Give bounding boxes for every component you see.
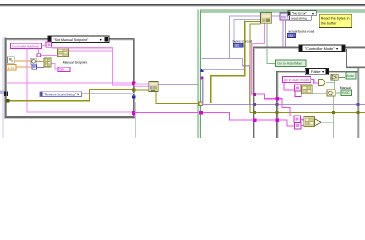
tunnel: green dot on case border	[266, 46, 269, 49]
multiply icon (round)	[31, 58, 36, 64]
wire: olive from subVI down and right	[155, 92, 200, 104]
svg-text:"Set Manual Setpoint": "Set Manual Setpoint"	[53, 38, 89, 42]
wire: pink inner-left vertical + bottom run	[27, 48, 134, 112]
svg-text:"Controller Mode": "Controller Mode"	[305, 47, 335, 51]
wire: green equality to BSC	[335, 93, 341, 94]
svg-text:I32: I32	[235, 44, 240, 48]
terminal I32 blue (bytes to read)	[233, 43, 243, 47]
terminal stub left of border	[0, 91, 4, 95]
nested structure bottom-right: bottom border of top-right box	[346, 49, 365, 69]
wire: olive error wire 2 down to bottom run	[249, 23, 365, 113]
wire: violet vertical from event border tunnel down	[202, 79, 203, 105]
case selector label "Set Manual Setpoint"	[48, 36, 109, 42]
svg-text:False: False	[311, 69, 321, 74]
case selector label "Controller Mode"	[299, 45, 345, 52]
svg-text:the buffer: the buffer	[321, 21, 337, 25]
wire: magenta label down to small box	[38, 49, 39, 54]
wire: olive error net from VISA icon down-left	[210, 21, 260, 103]
svg-text:go to auto mode: go to auto mode	[284, 78, 309, 82]
junction: magenta dot on event border lower	[199, 111, 203, 114]
bundle node (false case)	[302, 85, 313, 94]
svg-text:BSC: BSC	[342, 91, 350, 95]
numeric constant (orange DBL)	[7, 64, 16, 70]
wire: olive from tunnel to subVI	[134, 89, 149, 90]
wire: orange icon to round icon	[14, 60, 31, 61]
wire: magenta connectors in bottom cluster	[300, 119, 304, 126]
label "Controller Address"	[11, 43, 42, 48]
comparison triangle icon (bottom case)	[315, 119, 321, 126]
wire: magenta label to selector icon	[42, 45, 47, 46]
wire: pale line bundle to equality	[312, 93, 327, 94]
bundle node (bottom case)	[304, 117, 315, 127]
wire: pink format node to terminal	[51, 63, 58, 69]
nested case right area: vertical border	[357, 68, 359, 138]
tunnel dots on Controller Mode border	[253, 93, 256, 96]
wire: green boolean from icon down to local variable	[266, 23, 275, 64]
junction: olive dot at pale vertical	[332, 111, 335, 114]
boolean local "Manual" (green)	[341, 90, 351, 96]
local variable "Go to Auto/Man"	[276, 60, 307, 67]
wire: violet long horizontal to right edge	[202, 104, 365, 105]
svg-text:Manual Setpoint: Manual Setpoint	[63, 61, 88, 65]
svg-text:▼: ▼	[99, 38, 102, 42]
boolean constant "Auto"	[346, 72, 356, 79]
outer while loop bottom border	[5, 116, 136, 119]
event selector label "No Error"	[288, 11, 316, 16]
wire: pale lavender from Retrieve label to border	[81, 93, 134, 94]
terminal cluster magenta boxes (false case)	[294, 85, 301, 97]
svg-text:Controller Address: Controller Address	[12, 44, 39, 48]
wire: light pink band from border to subVI	[134, 83, 149, 87]
equality icon	[327, 90, 335, 96]
svg-text:DBL: DBL	[59, 68, 65, 72]
case structure "Controller Mode": top + left borders	[253, 47, 365, 138]
wire: pink bundle output to right tunnel (top route)	[7, 47, 134, 85]
wire: pale blue integer net (bytes to read)	[202, 19, 260, 70]
wire: pale line from triangle right	[321, 122, 333, 123]
svg-text:Go to Auto/Man: Go to Auto/Man	[277, 62, 302, 66]
wire: orange from DBL to converter	[16, 67, 32, 68]
tunnel dots on right vertical border	[356, 103, 359, 106]
bundle node	[58, 48, 69, 56]
wire: pink from bytes area down along case border	[251, 24, 291, 117]
wire: magenta stub from selector label down	[48, 43, 49, 45]
wire: magenta from label to OR gate	[311, 79, 319, 84]
wire: pink bundle output	[69, 51, 114, 52]
tunnel: blue on right border of left case	[132, 95, 135, 98]
comment note (yellow)	[319, 14, 351, 27]
OR gate icon	[319, 80, 325, 86]
case structure "False": top + left borders	[276, 71, 358, 138]
blue integer constant	[32, 65, 37, 69]
subVI icon	[149, 81, 158, 91]
wire: magenta label down to cluster	[284, 82, 295, 90]
svg-text:Auto: Auto	[346, 74, 354, 78]
svg-text:Manual: Manual	[340, 86, 351, 90]
tunnel: olive on right border of left case	[132, 88, 135, 91]
select node icon	[331, 74, 338, 80]
wire: green select to Auto	[338, 77, 345, 78]
wire: pink long upper run to right border	[7, 82, 134, 83]
format node (tan with cells)	[44, 58, 51, 67]
svg-text:▼: ▼	[321, 70, 324, 74]
terminal cluster magenta boxes (bottom case)	[294, 116, 301, 129]
wire: pale green vertical from gate down	[333, 97, 334, 139]
string case selector icon (magenta)	[46, 42, 52, 47]
svg-text:"No Error": "No Error"	[292, 12, 308, 16]
wire: long magenta lower run to the right	[134, 112, 294, 126]
wire: khaki round icon to format node	[36, 61, 44, 62]
wire: blue converter to format node	[37, 67, 45, 68]
tunnel: dark magenta dot on event border	[200, 77, 203, 80]
wire: violet VISA net top	[201, 15, 260, 105]
case selector label "Retrieve Scans/Setup"	[40, 92, 81, 97]
junction: magenta on bottom wire	[132, 111, 136, 115]
svg-text:1.23: 1.23	[8, 66, 15, 70]
svg-text:▼: ▼	[77, 92, 80, 96]
VISA read icon (khaki)	[260, 13, 271, 23]
svg-text:I32: I32	[288, 34, 293, 38]
label "read string"	[290, 16, 311, 21]
svg-text:"Retrieve Scans/Setup": "Retrieve Scans/Setup"	[44, 92, 76, 96]
junction dot on olive at left border	[6, 99, 9, 102]
small magenta constant box	[37, 54, 40, 57]
case selector label "False"	[305, 68, 328, 74]
wire: violet from VISA icon to PKT	[272, 16, 280, 17]
event structure top border (green)	[198, 10, 365, 13]
tunnel dots on False case border	[275, 97, 278, 100]
string constant PKT (purple)	[280, 13, 290, 20]
tunnel: magenta on right border of left case	[132, 82, 135, 85]
wire: pink small box to bundle	[40, 55, 57, 56]
case structure "Set Manual Setpoint": borders	[5, 38, 136, 117]
wire: lavender vertical at far left	[2, 38, 3, 139]
numeric conversion icon (top small khaki)	[8, 57, 15, 64]
wire: pale green gate to select	[312, 80, 335, 94]
svg-text:actual bytes read: actual bytes read	[288, 29, 314, 33]
svg-text:▼: ▼	[335, 47, 338, 51]
outer while loop left border	[5, 38, 7, 119]
wire: purple double vertical from PKT down	[282, 20, 285, 47]
svg-text:▼: ▼	[311, 12, 314, 16]
wire: lavender vertical right of left case	[135, 102, 136, 138]
shift register (black) on left border	[4, 92, 8, 96]
terminal blue (actual bytes read)	[287, 33, 295, 38]
wire: violet from subVI to event structure	[159, 84, 198, 85]
svg-text:read string: read string	[291, 16, 307, 20]
event structure left border (green)	[198, 10, 201, 138]
terminal "Manual Setpoint" (magenta)	[58, 67, 70, 71]
svg-text:Read the bytes in: Read the bytes in	[321, 16, 350, 20]
tunnel: khaki ring on event border	[199, 102, 203, 106]
tunnel: blue dot on event border	[200, 69, 203, 72]
wire: olive error wire from left border across	[6, 89, 133, 101]
label "go to auto mode" (magenta)	[282, 77, 310, 83]
outer structure top border	[0, 4, 365, 7]
